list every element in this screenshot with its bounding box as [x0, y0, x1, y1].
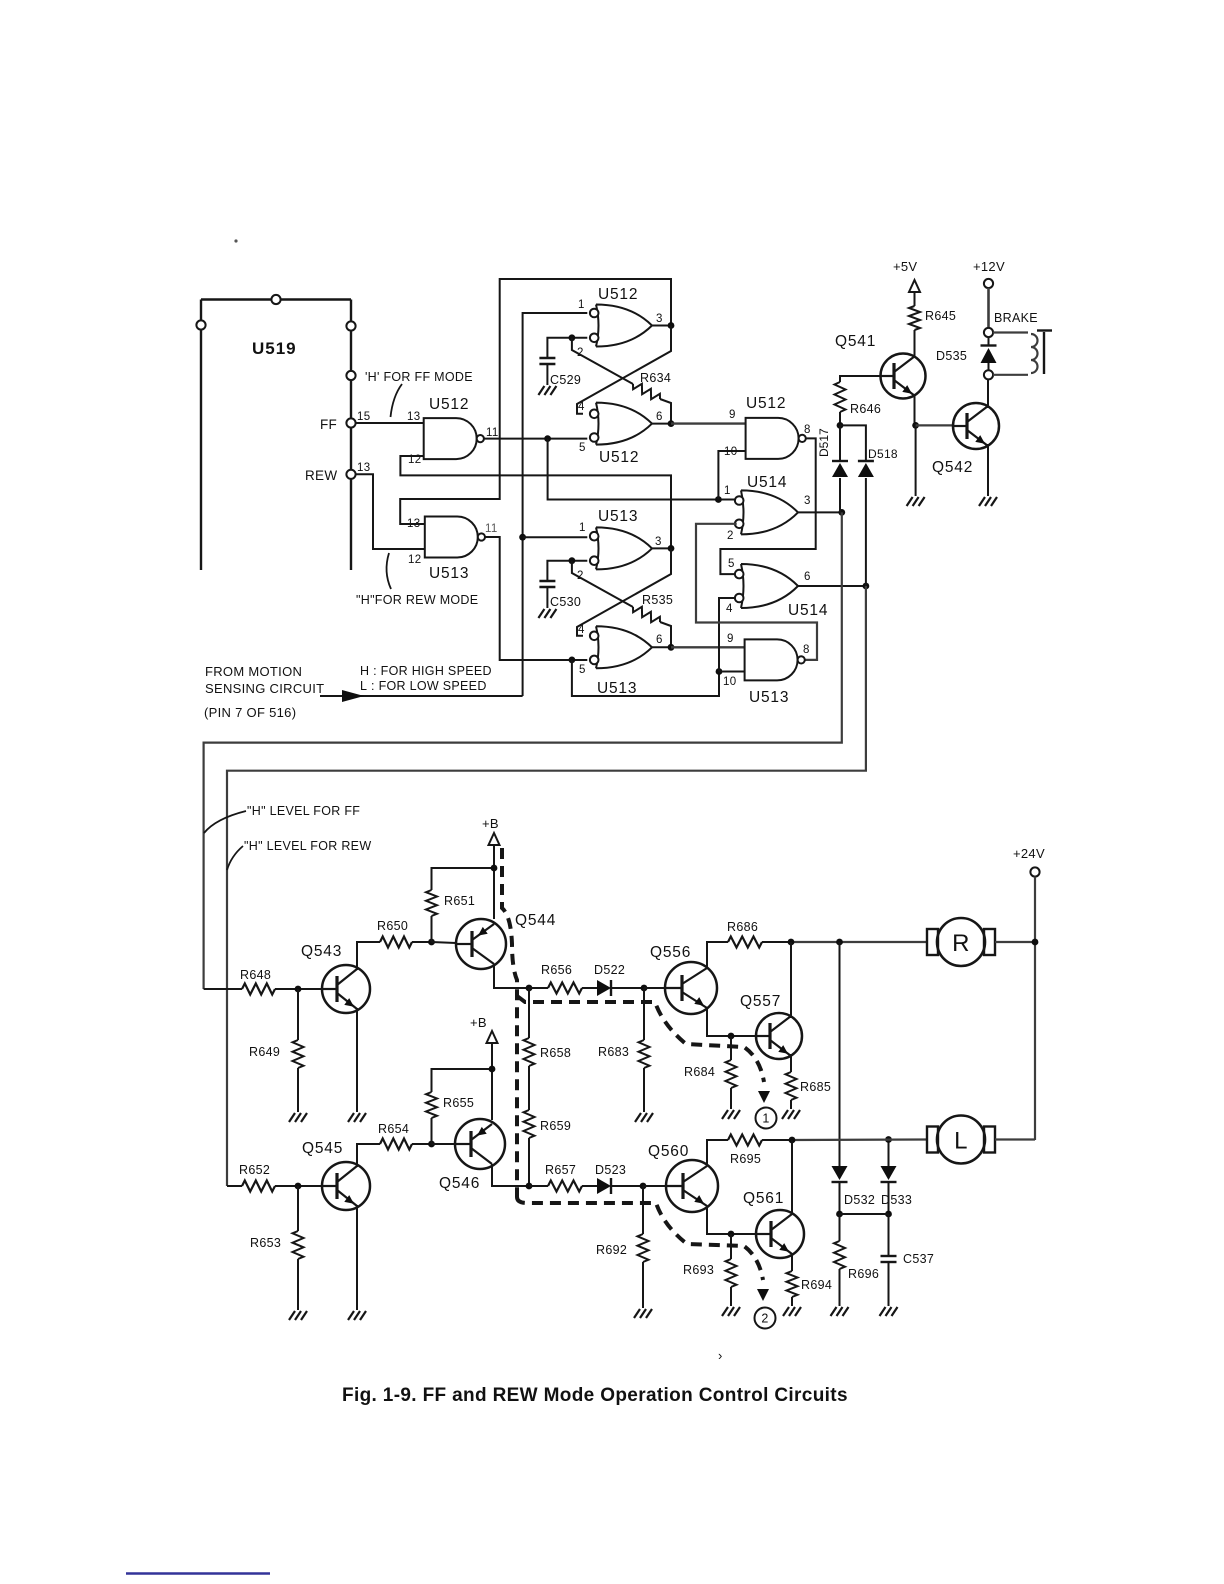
svg-text:U512: U512	[746, 395, 786, 412]
wire node link D532-D533	[840, 1213, 889, 1215]
ground for C529	[538, 386, 556, 395]
resistor R654	[378, 1122, 432, 1150]
ground for R696	[831, 1307, 849, 1316]
relay armature	[1037, 331, 1052, 375]
junction +24V to motor R	[1032, 939, 1039, 946]
wire Q556 emitter to Q557 base	[707, 1008, 756, 1036]
wire to Q560 base	[643, 1185, 665, 1187]
arrowhead motion sensing input	[342, 690, 364, 702]
junction Q546 emitter node	[526, 1183, 533, 1190]
wire U513 NAND output pin 11 drop to latch pin 5 line	[485, 537, 587, 660]
svg-text:FROM MOTION: FROM MOTION	[205, 664, 302, 679]
wire motor R to +24V rail	[995, 941, 1035, 943]
transistor Q541	[835, 333, 926, 399]
svg-text:8: 8	[804, 424, 811, 436]
cross-coupling diagonal U513A pin2 node through R535 to out6 node	[572, 561, 633, 607]
junction pin 2 node	[569, 334, 576, 341]
svg-text:"H" LEVEL FOR REW: "H" LEVEL FOR REW	[244, 839, 371, 853]
wire Q556 collector up	[707, 942, 728, 968]
svg-text:U513: U513	[597, 680, 637, 697]
junction Q546 base node	[428, 1141, 435, 1148]
transistor Q546	[439, 1119, 505, 1192]
svg-text:D522: D522	[594, 963, 625, 977]
transistor Q556	[650, 944, 717, 1014]
junction U514A output node	[838, 509, 845, 516]
wire Q557 collector up to R686 node	[790, 942, 792, 1018]
cross-coupling diagonal U513A out3 to U513B pin4	[577, 548, 671, 635]
svg-text:11: 11	[486, 427, 499, 439]
junction Q557 base node	[728, 1033, 735, 1040]
svg-text:3: 3	[656, 313, 663, 325]
svg-text:5: 5	[579, 664, 586, 676]
diode D532	[832, 1166, 876, 1214]
dashed mode path FF (around Q544 down to Q556)	[502, 848, 764, 1197]
label pin 9	[729, 409, 736, 421]
svg-text:D517: D517	[817, 428, 831, 457]
junction motion line to U513 latch pin 1	[519, 534, 526, 541]
transistor Q543	[301, 943, 370, 1013]
or-gate U512 latch A (pins 1,2 -> 3)	[590, 286, 652, 347]
svg-text:R655: R655	[443, 1096, 474, 1110]
resistor R655	[426, 1069, 492, 1144]
junction Q561 base node	[728, 1231, 735, 1238]
wire U512 NAND out 8 to U514 pin 5	[720, 438, 815, 574]
wire up to U512 NAND pin 10	[718, 451, 745, 500]
wire to U513 NAND pin 10	[719, 671, 745, 673]
label pin 1	[578, 299, 585, 311]
svg-text:R686: R686	[727, 920, 758, 934]
svg-text:D533: D533	[881, 1193, 912, 1207]
junction U512B output node	[668, 420, 675, 427]
wire FF NAND output drop to U514 pin 1 / U512 pin 10	[548, 439, 737, 500]
svg-text:Q543: Q543	[301, 943, 342, 960]
svg-text:R658: R658	[540, 1046, 571, 1060]
wire R535 to U513B output node	[660, 622, 671, 647]
wire R634 to U512B output node	[660, 399, 671, 424]
wire U514A pin 2 from U513 NAND output	[696, 524, 817, 660]
svg-text:L : FOR LOW SPEED: L : FOR LOW SPEED	[360, 679, 487, 693]
svg-text:Fig. 1-9. FF and REW Mode Ope: Fig. 1-9. FF and REW Mode Operation Cont…	[342, 1385, 848, 1406]
relay top terminal	[984, 328, 993, 337]
wire U514A out down to lower-left bus	[204, 512, 842, 989]
svg-text:Q557: Q557	[740, 993, 781, 1010]
svg-text:R648: R648	[240, 968, 271, 982]
svg-text:R653: R653	[250, 1236, 281, 1250]
svg-text:+5V: +5V	[893, 259, 917, 274]
power +24V terminal	[1013, 846, 1045, 1140]
svg-text:D535: D535	[936, 349, 967, 363]
label pin 5 of U513B	[579, 664, 586, 676]
cross-coupling diagonal U512A out3 to U512B pin4	[577, 326, 671, 414]
dashed arrow to circled 1	[758, 1091, 770, 1103]
wire U513 NAND pin 13 feedback from U512 latch output (top rail)	[400, 279, 671, 524]
nand gate U512 (FF, pins 13,12 -> 11)	[424, 396, 484, 459]
wire U514B out down to lower-left bus	[227, 586, 866, 1186]
wire Q541 emitter to Q542 base	[916, 424, 953, 426]
power +B for Q544	[482, 816, 500, 919]
relay bottom terminal	[984, 370, 993, 379]
svg-text:6: 6	[804, 571, 811, 583]
svg-text:R692: R692	[596, 1243, 627, 1257]
diode D532 branch	[839, 942, 841, 1166]
wire R695 to motor L terminal	[792, 1138, 927, 1141]
svg-text:R646: R646	[850, 402, 881, 416]
resistor R634 (in diagonal)	[633, 371, 671, 399]
relay coil of BRAKE	[993, 333, 1038, 375]
power +12V terminal	[973, 259, 1005, 328]
svg-text:3: 3	[655, 536, 662, 548]
junction D533 on motor L line	[885, 1136, 892, 1143]
wire to U513 latch pin 1	[523, 536, 588, 538]
leader for FF level	[204, 811, 246, 833]
junction diode node	[837, 422, 844, 429]
svg-text:D518: D518	[868, 447, 898, 461]
IC U519 (partial outline)	[201, 300, 351, 571]
svg-text:1: 1	[578, 299, 585, 311]
wire Q541 emitter down	[914, 396, 916, 425]
label U519	[252, 339, 297, 358]
junction U513A pin 2 node	[569, 557, 576, 564]
wire U512B output 6	[652, 423, 671, 425]
svg-text:R654: R654	[378, 1122, 409, 1136]
power +B for Q546	[470, 1015, 498, 1120]
svg-text:4: 4	[726, 603, 733, 615]
circled 2 marker	[755, 1308, 776, 1329]
svg-text:R535: R535	[642, 593, 673, 607]
svg-text:15: 15	[357, 411, 370, 423]
junction at U512 NAND pin10 branch	[715, 496, 722, 503]
dashed mode path REW (around Q560 to Q561)	[517, 1197, 763, 1280]
transistor Q542	[932, 403, 999, 476]
svg-text:R657: R657	[545, 1163, 576, 1177]
blue underline mark	[126, 1572, 270, 1575]
wire to Q556 base	[644, 987, 665, 989]
capacitor C537	[881, 1214, 935, 1306]
note SENSING CIRCUIT	[205, 681, 324, 696]
wire motor L to +24V rail	[995, 1138, 1035, 1140]
label pin 2 of U514A	[727, 530, 734, 542]
wire R645 to Q541 collector	[914, 330, 916, 356]
label pin 5 of U514B	[728, 558, 735, 570]
nand gate U512 (pins 9,10 -> 8)	[746, 395, 806, 459]
junction Q544 emitter node	[526, 985, 533, 992]
svg-text:H : FOR HIGH SPEED: H : FOR HIGH SPEED	[360, 664, 492, 678]
svg-text:Q541: Q541	[835, 333, 876, 350]
junction U513A output node	[668, 545, 675, 552]
label REW	[305, 468, 337, 483]
leader to REW wire	[387, 553, 391, 589]
svg-text:R694: R694	[801, 1278, 832, 1292]
motor R	[927, 918, 995, 966]
svg-text:D523: D523	[595, 1163, 626, 1177]
nand gate U513 (REW, pins 13,12 -> 11)	[425, 517, 485, 583]
wire Q542 emitter to ground	[987, 444, 989, 496]
junction Q544 base node	[428, 939, 435, 946]
svg-text:13: 13	[357, 462, 370, 474]
svg-text:U514: U514	[747, 474, 787, 491]
svg-text:SENSING CIRCUIT: SENSING CIRCUIT	[205, 681, 324, 696]
svg-text:R645: R645	[925, 309, 956, 323]
transistor Q545	[302, 1140, 370, 1210]
svg-text:R659: R659	[540, 1119, 571, 1133]
svg-text:›: ›	[718, 1348, 723, 1363]
junction U513 NAND pin 10 branch	[716, 668, 723, 675]
capacitor C529	[539, 358, 581, 387]
svg-text:10: 10	[723, 676, 736, 688]
svg-text:9: 9	[727, 633, 734, 645]
wire Q560 collector up	[707, 1140, 728, 1166]
svg-text:"H"FOR REW MODE: "H"FOR REW MODE	[356, 593, 478, 607]
junction latch pin5 line	[569, 657, 576, 664]
note PIN 7 OF 516	[204, 705, 296, 720]
note H LEVEL FOR FF	[247, 804, 360, 818]
svg-text:6: 6	[656, 411, 663, 423]
resistor chain R658	[524, 988, 572, 1066]
label pin 13	[357, 462, 370, 474]
resistor R651	[426, 868, 494, 942]
label pin 8 of U512 NAND	[804, 424, 811, 436]
wire U512 NAND pin 12 feedback from U513 latch output	[400, 456, 671, 548]
wire Q545 emitter to ground	[356, 1205, 358, 1310]
svg-text:1: 1	[724, 485, 731, 497]
junction FF NAND output node	[544, 435, 551, 442]
ground for R684	[722, 1110, 740, 1119]
label pin 3 of U514A	[804, 495, 811, 507]
svg-text:BRAKE: BRAKE	[994, 311, 1038, 325]
wire Q544 emitter down to node	[494, 964, 529, 988]
svg-text:R683: R683	[598, 1045, 629, 1059]
label pin 1 of U514A	[724, 485, 731, 497]
resistor R649	[249, 989, 304, 1112]
diode D533	[881, 1166, 913, 1214]
label FF	[320, 417, 337, 432]
note 'H' FOR FF MODE	[365, 370, 473, 384]
label pin 4 of U514B	[726, 603, 733, 615]
svg-text:U519: U519	[252, 339, 297, 358]
junction U514B output node	[863, 583, 870, 590]
svg-text:9: 9	[729, 409, 736, 421]
label pin 10 of U513 NAND	[723, 676, 736, 688]
wire D533 branch	[888, 1140, 890, 1167]
diode D522	[582, 963, 644, 996]
wire Q545 collector up and right	[357, 1144, 380, 1167]
label pin 8 of U513 NAND	[803, 644, 810, 656]
label pin 4 of U513B	[578, 624, 585, 636]
svg-text:U512: U512	[598, 286, 638, 303]
label pin 1 of U513A	[579, 522, 586, 534]
svg-text:R695: R695	[730, 1152, 761, 1166]
wire U513A output 3	[652, 547, 671, 549]
resistor R692	[596, 1186, 649, 1308]
wire Q561 collector up to R695 node	[791, 1140, 793, 1214]
motor L	[927, 1116, 995, 1164]
label BRAKE	[994, 311, 1038, 325]
or-gate U513 latch A (pins 1,2 -> 3)	[590, 508, 652, 569]
svg-text:12: 12	[408, 554, 421, 566]
label pin 11 of U513 NAND	[485, 523, 498, 535]
wire Q560 emitter to Q561 base	[707, 1206, 757, 1234]
caption Fig. 1-9	[342, 1385, 848, 1406]
svg-text:U513: U513	[598, 508, 638, 525]
svg-text:R696: R696	[848, 1267, 879, 1281]
resistor R646	[835, 382, 882, 416]
junction D532 R696 node	[836, 1211, 843, 1218]
wire U513B output 6	[652, 646, 671, 648]
wire Q543 emitter to ground	[356, 1008, 358, 1112]
resistor R684	[684, 1036, 737, 1109]
node REW pin 13 terminal	[346, 470, 355, 479]
resistor R645	[909, 306, 956, 330]
label pin 6 of U513B	[656, 634, 663, 646]
resistor R695	[728, 1135, 792, 1167]
note H: FOR HIGH SPEED	[360, 664, 492, 678]
wire U514A output 3	[798, 511, 842, 513]
resistor R696	[834, 1214, 879, 1306]
wire R686 to motor R terminal	[791, 941, 927, 943]
label pin 9 of U513 NAND	[727, 633, 734, 645]
wire motion-sense vertical to latch pins 1	[523, 313, 588, 696]
note FROM MOTION	[205, 664, 302, 679]
wire to Q546 base	[432, 1143, 456, 1145]
junction U513B output node	[668, 644, 675, 651]
junction Q560 base node	[640, 1183, 647, 1190]
ground for R692	[634, 1309, 652, 1318]
svg-text:D532: D532	[844, 1193, 875, 1207]
note L: FOR LOW SPEED	[360, 679, 487, 693]
wire REW switch to U513 NAND pin 12	[356, 474, 425, 549]
label pin 12	[408, 454, 421, 466]
leader to FF wire	[391, 384, 403, 417]
svg-text:2: 2	[727, 530, 734, 542]
ground for Q542 emitter	[979, 497, 997, 506]
junction Q561 collector node	[789, 1137, 796, 1144]
diode D523	[582, 1163, 643, 1194]
stray tick mark	[718, 1348, 723, 1363]
resistor chain R659	[524, 1066, 572, 1186]
svg-text:3: 3	[804, 495, 811, 507]
ground for C530	[538, 609, 556, 618]
svg-text:5: 5	[579, 442, 586, 454]
nand gate U513 (pins 9,10 -> 8)	[745, 639, 805, 706]
svg-text:U513: U513	[749, 689, 789, 706]
transistor Q557	[740, 993, 802, 1059]
svg-text:6: 6	[656, 634, 663, 646]
wire U514B output 6	[798, 585, 866, 587]
resistor R686	[727, 920, 791, 948]
label pin 2 of U513A	[577, 570, 584, 582]
junction +B node for Q546	[489, 1066, 496, 1073]
resistor R656	[529, 963, 582, 994]
svg-text:(PIN 7 OF 516): (PIN 7 OF 516)	[204, 705, 296, 720]
wire branch to D518	[840, 425, 866, 461]
svg-text:Q556: Q556	[650, 944, 691, 961]
wire up to U514 pin 4	[719, 598, 737, 672]
label pin 10 of U512 NAND	[724, 446, 737, 458]
wire Q561 emitter down	[791, 1254, 793, 1271]
svg-text:5: 5	[728, 558, 735, 570]
svg-text:Q544: Q544	[515, 912, 556, 929]
wire Q541 base to R646	[840, 376, 881, 382]
resistor R683	[598, 988, 650, 1112]
svg-text:R685: R685	[800, 1080, 831, 1094]
svg-text:FF: FF	[320, 417, 337, 432]
junction Q543 base node	[295, 986, 302, 993]
wire Q541 emitter to ground	[915, 425, 917, 496]
svg-text:+24V: +24V	[1013, 846, 1045, 861]
ground for R683	[635, 1113, 653, 1122]
or-gate U514 B (pins 5,4 -> 6)	[735, 564, 828, 619]
label pin 15	[357, 411, 370, 423]
wire U512B output to U512 NAND pin 9	[671, 422, 746, 424]
ground for R685	[782, 1110, 800, 1119]
wire U513A pin 2 node to capacitor branch	[547, 561, 587, 581]
circled 1 marker	[756, 1108, 777, 1129]
junction U512A output node	[668, 322, 675, 329]
wire Q543 collector up and right	[357, 942, 380, 970]
svg-text:Q546: Q546	[439, 1175, 480, 1192]
diode D518	[858, 447, 898, 586]
label pin 13 of U512 NAND	[407, 411, 420, 423]
wire Q557 emitter down	[790, 1054, 792, 1072]
svg-text:C529: C529	[550, 373, 581, 387]
wire to Q544 base	[432, 942, 457, 943]
U519 pin terminal	[346, 371, 355, 380]
diode D535	[936, 337, 997, 370]
svg-text:Q560: Q560	[648, 1143, 689, 1160]
svg-text:10: 10	[724, 446, 737, 458]
dashed arrow to circled 2	[757, 1289, 769, 1301]
stray scan dot	[234, 239, 237, 242]
svg-text:Q545: Q545	[302, 1140, 343, 1157]
resistor R648	[204, 968, 322, 995]
label pin 6	[656, 411, 663, 423]
resistor R535 (in diagonal)	[633, 593, 673, 622]
svg-text:'H' FOR FF MODE: 'H' FOR FF MODE	[365, 370, 473, 384]
resistor R653	[250, 1186, 304, 1310]
terminal on U519 left pin	[196, 320, 205, 329]
label pin 5	[579, 442, 586, 454]
svg-text:11: 11	[485, 523, 498, 535]
junction Q557 collector node	[788, 939, 795, 946]
wire FF switch to U512 NAND pin 13	[356, 422, 424, 424]
wire Q546 emitter down to node	[492, 1164, 529, 1186]
svg-text:1: 1	[579, 522, 586, 534]
diode D517	[817, 425, 848, 512]
power +5V	[893, 259, 920, 306]
junction D533 C537 node	[885, 1211, 892, 1218]
resistor R694	[787, 1271, 833, 1306]
svg-text:R656: R656	[541, 963, 572, 977]
label pin 6 of U514B	[804, 571, 811, 583]
svg-text:4: 4	[578, 401, 585, 413]
svg-text:+B: +B	[470, 1015, 487, 1030]
label pin 4	[578, 401, 585, 413]
or-gate U512 latch B (pins 4,5 -> 6)	[590, 403, 652, 466]
junction Q541 emitter node	[912, 422, 919, 429]
wire FROM MOTION SENSING line	[320, 695, 523, 697]
ground for Q543 emitter	[348, 1113, 366, 1122]
svg-text:U512: U512	[599, 449, 639, 466]
ground for R693	[722, 1307, 740, 1316]
wire pin 2 node to capacitor branch	[547, 338, 587, 358]
ground for R649	[289, 1113, 307, 1122]
capacitor C530	[539, 581, 581, 609]
svg-text:8: 8	[803, 644, 810, 656]
resistor R650	[377, 919, 432, 948]
label pin 3	[656, 313, 663, 325]
wire U513B output to U513 NAND pin 9	[671, 646, 745, 648]
label pin 11	[486, 427, 499, 439]
